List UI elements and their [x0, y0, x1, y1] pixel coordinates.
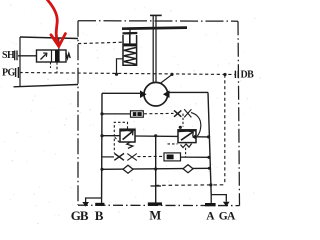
junction brake pilot — [115, 73, 118, 76]
junction left bus row1 — [100, 112, 103, 115]
junction right bus orifice — [207, 156, 210, 159]
port GB — [82, 202, 89, 207]
brake spring — [124, 48, 136, 65]
port PG — [16, 67, 19, 78]
shaft — [153, 16, 156, 83]
port B — [95, 203, 104, 206]
pilot line DB down (dashed) — [224, 75, 226, 185]
svg-text:M: M — [149, 209, 161, 223]
check valve left — [123, 165, 133, 173]
red annotation arrow — [48, 0, 66, 46]
junction right bus check row — [208, 167, 211, 170]
junction DB tap — [223, 73, 226, 76]
wire pilot row upper — [102, 113, 131, 115]
valve V1 counterbalance — [120, 129, 135, 142]
pilot wire dashed to X — [144, 112, 174, 114]
pilot stub down to V2 — [182, 114, 184, 127]
brake piston — [124, 43, 136, 46]
junction right bus valve row — [207, 135, 210, 138]
throttle X1 upper — [174, 110, 181, 116]
junction left bus check row — [100, 168, 103, 171]
wire A branch — [211, 195, 226, 202]
valve V2 counterbalance — [178, 130, 196, 143]
svg-text:PG: PG — [2, 68, 16, 79]
svg-text:A: A — [206, 211, 215, 223]
valve top stub — [58, 38, 60, 50]
brake cylinder body — [123, 35, 137, 65]
pilot valve sub-box — [20, 37, 78, 39]
valve V1 spring — [127, 142, 133, 148]
pilot curve to valve V2 — [191, 113, 201, 137]
valve closed-position block — [55, 51, 60, 62]
enclosure top border — [78, 20, 238, 23]
pilot arrow into V2 — [192, 134, 197, 140]
valve spring — [66, 53, 70, 58]
bus center — [155, 136, 157, 203]
junction V2 pilot — [179, 126, 182, 129]
scan speckle noise — [1, 4, 261, 224]
junction A-branch pilot — [209, 183, 212, 186]
throttle X2 lower — [127, 154, 137, 161]
wire motor right — [169, 91, 208, 93]
pilot wire dashed to orifice — [138, 155, 165, 157]
bus left — [101, 93, 103, 198]
orifice lower — [164, 153, 181, 161]
port M — [148, 202, 162, 205]
throttle X1 lower — [114, 153, 124, 160]
junction left bus valve row — [100, 134, 103, 137]
junction center bus check row — [154, 167, 157, 170]
valve V1 pilot (dashed) — [114, 122, 127, 153]
junction center bus valve row — [154, 134, 157, 137]
bus right — [208, 92, 211, 194]
junction motor control — [170, 73, 173, 76]
orifice upper — [131, 111, 144, 117]
valve drain stubs — [50, 62, 52, 68]
brake cylinder piston — [123, 32, 138, 35]
motor control arrow — [161, 75, 172, 83]
enclosure bottom border — [78, 204, 240, 206]
brake pilot elbow — [117, 59, 124, 74]
lever bar — [122, 28, 187, 29]
wire SH to valve — [18, 55, 37, 57]
motor M1 — [144, 82, 168, 106]
port DB — [235, 71, 238, 78]
throttle X2 upper — [184, 109, 191, 117]
enclosure left border — [77, 21, 79, 205]
valve SH 2-position — [37, 50, 67, 62]
port GA — [223, 202, 230, 207]
wire motor left — [102, 92, 141, 94]
port A — [205, 203, 216, 206]
motor port arrow left — [140, 90, 147, 98]
valve V2 drain stub — [185, 148, 187, 157]
motor port arrow right — [163, 90, 170, 98]
wire valve row — [102, 136, 209, 137]
valve open-position arrow — [41, 54, 47, 60]
pilot row DB (dashed) — [156, 184, 225, 187]
pilot line PG to DB (dashed) — [20, 73, 235, 75]
pilot line to brake (dashed) — [78, 42, 123, 43]
enclosure right border — [238, 21, 240, 205]
wire B drop — [101, 198, 103, 203]
svg-text:DB: DB — [241, 70, 255, 81]
wire A drop — [210, 195, 212, 203]
valve V2 spring — [181, 144, 192, 148]
check valve right — [183, 165, 193, 173]
svg-text:SH: SH — [2, 50, 15, 61]
wire GB branch — [86, 198, 102, 202]
svg-text:GB: GB — [71, 208, 89, 223]
port SH — [15, 51, 17, 61]
tee center bus — [151, 185, 162, 187]
svg-text:GA: GA — [219, 211, 236, 223]
svg-text:B: B — [95, 208, 104, 223]
wire orifice to right bus — [181, 156, 210, 158]
lever T-handle — [150, 14, 162, 16]
wire pilot row lower — [102, 156, 114, 158]
wire check row — [102, 168, 210, 169]
